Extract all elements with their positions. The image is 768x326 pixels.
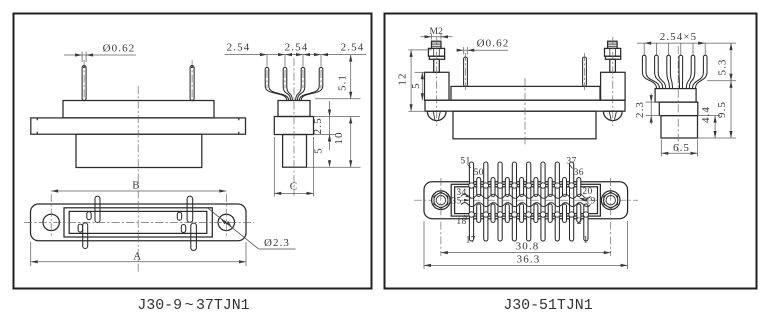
side view: rear shell <box>76 134 202 167</box>
svg-text:C: C <box>290 181 298 193</box>
side view: mounting flange <box>31 118 246 134</box>
dim B: dimension line <box>51 190 226 192</box>
side view: pin left centerline <box>83 60 85 104</box>
plan view: small pin tip ovals <box>87 212 91 220</box>
dim 5.3: dimension line and text <box>707 80 736 82</box>
dim 0.62 left: dimension line <box>64 54 136 56</box>
dim 36.3: dimension line <box>424 264 628 266</box>
svg-text:51: 51 <box>460 157 470 167</box>
svg-text:35: 35 <box>451 196 461 206</box>
plan 51: insulator rectangle inner <box>455 187 598 214</box>
jackscrew left: screw tip dome below flange <box>427 111 446 120</box>
dim 2.3 leader line <box>208 208 259 249</box>
jackscrew right: axis centerline <box>612 37 614 126</box>
dim C: dimension line <box>274 192 313 194</box>
plan 51: mounting hole right (circles and hex) <box>601 191 620 210</box>
svg-text:5.1: 5.1 <box>337 74 349 91</box>
svg-text:J30-51TJN1: J30-51TJN1 <box>503 298 592 314</box>
jackscrew right: washer <box>605 56 620 59</box>
svg-text:37: 37 <box>566 157 576 167</box>
plan view: up wire-wrap post left <box>95 196 100 222</box>
jackscrew left: standoff bushing <box>425 72 450 100</box>
end view 51: vertical centerline <box>677 46 679 152</box>
jackscrew right: hex nut <box>605 48 621 56</box>
dim 12: dimension line and text <box>410 50 412 111</box>
svg-text:6.5: 6.5 <box>673 142 690 154</box>
plan 51: insulator wave line upper <box>461 194 591 198</box>
plan view: insulator rectangle inner <box>69 211 207 233</box>
svg-text:2.54: 2.54 <box>341 42 365 54</box>
right panel frame <box>385 14 757 289</box>
plan view: insulator rectangle outer <box>64 208 212 237</box>
side view: contact pin right <box>583 57 587 86</box>
plan view: mounting hole left <box>43 214 59 230</box>
end view: vertical centerline <box>293 58 295 196</box>
svg-text:Ø2.3: Ø2.3 <box>264 237 290 249</box>
svg-text:B: B <box>132 180 140 192</box>
end view: dimension line 2.54 pitch <box>225 54 367 56</box>
plan 51: short pins lower row <box>477 204 481 223</box>
side view: contact pin right <box>190 66 194 101</box>
side view: vertical centerline <box>137 86 139 176</box>
plan 51: connector body rounded rectangle <box>424 182 628 219</box>
dim B: extension/centerlines through holes <box>50 194 52 237</box>
dim 5: dimension line and text <box>307 166 361 168</box>
jackscrew left: stud <box>434 59 440 72</box>
svg-text:Ø0.62: Ø0.62 <box>477 37 510 49</box>
dim A: extension lines <box>30 242 32 266</box>
svg-text:19: 19 <box>585 197 595 207</box>
svg-text:2.3: 2.3 <box>634 101 646 118</box>
side view: pin right centerline <box>191 60 193 104</box>
side view: insulator body <box>63 101 214 118</box>
svg-text:Ø0.62: Ø0.62 <box>103 43 136 55</box>
end view 51: middle step block <box>659 102 698 116</box>
plan view: down wire-wrap post right <box>191 223 197 251</box>
dim 5.1: dimension line and text <box>315 98 361 100</box>
dim A: dimension line <box>31 261 246 263</box>
svg-text:10: 10 <box>333 131 345 144</box>
end view: splayed contact pins <box>265 67 269 86</box>
plan view: up wire-wrap post right <box>187 196 193 222</box>
dim 2.5: dimension line and text <box>314 116 361 118</box>
jackscrew left: hex nut <box>428 48 444 56</box>
end view: rear shell block <box>283 135 307 168</box>
svg-text:A: A <box>133 250 142 262</box>
end view: middle flange block <box>274 117 313 135</box>
plan 51: hole vertical centerline right <box>610 178 612 256</box>
dim 12: extension lines <box>408 49 431 51</box>
plan 51: pin base circles lower <box>469 212 474 217</box>
jackscrew right: screw tip dome below flange <box>603 111 622 120</box>
side view: contact pin left <box>82 66 86 101</box>
svg-text:50: 50 <box>474 168 484 178</box>
end view 51: splayed contact pins <box>642 55 646 72</box>
jackscrew left: washer <box>429 56 444 59</box>
svg-text:2.54: 2.54 <box>227 42 251 54</box>
plan view: vertical centerline <box>137 176 139 272</box>
jackscrew right: thread <box>608 41 618 48</box>
plan view: mounting hole right <box>218 214 234 230</box>
svg-text:30.8: 30.8 <box>516 241 540 253</box>
end view 51: dimension line 2.54x5 <box>637 42 736 44</box>
svg-text:5.3: 5.3 <box>717 58 729 75</box>
svg-text:1: 1 <box>583 235 588 245</box>
svg-text:36.3: 36.3 <box>517 253 541 265</box>
side view: contact pin left <box>464 57 468 86</box>
side view: mounting flange <box>425 100 625 111</box>
left panel frame <box>14 14 372 289</box>
plan view: down wire-wrap post left <box>83 223 88 249</box>
jackscrew right: standoff bushing <box>601 72 626 100</box>
plan 51: mounting hole left (circles and hex) <box>432 191 451 210</box>
plan 51: hole vertical centerline left <box>440 178 442 256</box>
dim 6.5: extension and dimension lines <box>698 137 737 139</box>
svg-text:17: 17 <box>466 235 476 245</box>
svg-text:2.54×5: 2.54×5 <box>660 31 698 43</box>
plan 51: horizontal centerline <box>414 199 638 201</box>
svg-text:4.4: 4.4 <box>700 106 712 123</box>
plan 51: insulator wave line lower <box>461 203 591 207</box>
dim 4.4: dimension line and text <box>698 115 720 117</box>
side view: flange corner ticks <box>36 118 38 120</box>
end view 51: neck block <box>655 89 696 103</box>
plan view: horizontal centerline <box>24 221 254 223</box>
jackscrew left: thread <box>432 41 442 48</box>
dim 36.3: extension lines <box>423 221 425 269</box>
svg-text:18: 18 <box>456 217 466 227</box>
svg-text:5: 5 <box>313 147 325 154</box>
end view: insulator top block <box>278 101 310 117</box>
plan 51: insulator rectangle outer <box>451 184 600 216</box>
plan 51: short pins upper row <box>477 178 481 197</box>
svg-text:2.54: 2.54 <box>285 42 309 54</box>
dim C: extension lines <box>273 137 275 197</box>
end view 51: rear shell block <box>661 116 698 138</box>
dim 10: dimension line and text <box>350 117 352 168</box>
svg-text:36: 36 <box>574 168 584 178</box>
dim 5 screw: dimension line and text <box>421 72 423 100</box>
plan 51: tall pins (rows up+down) <box>469 162 473 241</box>
plan 51: tall pin column 9 lower only <box>584 204 588 241</box>
svg-text:12: 12 <box>396 72 408 85</box>
dim 30.8: dimension line <box>441 252 611 254</box>
plan view: connector body rounded rectangle <box>31 204 247 241</box>
dim 9.5: dimension line and text <box>730 81 732 138</box>
svg-text:2.5: 2.5 <box>312 117 324 134</box>
side view: insulator body <box>451 86 600 100</box>
jackscrew right: stud <box>610 59 616 72</box>
plan 51: pin base circles upper <box>469 183 474 188</box>
jackscrew left: axis centerline <box>436 37 438 126</box>
side view: vertical centerline <box>524 78 526 146</box>
svg-text:5: 5 <box>410 82 422 89</box>
svg-text:20: 20 <box>582 187 592 197</box>
side view: rear shell <box>453 111 596 139</box>
dim 2.3: dimension line and text <box>646 101 660 103</box>
